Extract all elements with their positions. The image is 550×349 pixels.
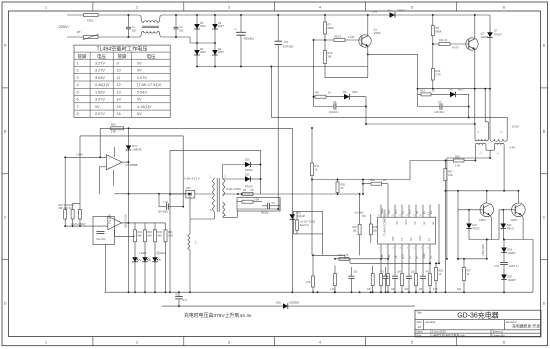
svg-text:+(0.46)V: +(0.46)V — [354, 211, 364, 214]
svg-text:D26: D26 — [276, 300, 281, 304]
svg-text:471: 471 — [183, 299, 188, 302]
svg-text:0R: 0R — [251, 189, 254, 192]
svg-text:(39~009): (39~009) — [158, 210, 168, 213]
svg-text:15: 15 — [117, 105, 121, 109]
svg-text:4: 4 — [319, 341, 321, 345]
svg-text:4.67V: 4.67V — [452, 46, 459, 50]
svg-text:D17: D17 — [132, 144, 137, 148]
svg-text:12K: 12K — [419, 289, 424, 291]
svg-text:2: 2 — [136, 5, 138, 9]
svg-text:OUT: OUT — [389, 209, 391, 214]
svg-text:FB: FB — [417, 211, 419, 214]
svg-text:GND: GND — [424, 253, 426, 258]
svg-text:13003: 13003 — [481, 35, 489, 39]
svg-text:6: 6 — [77, 98, 79, 102]
svg-text:电压: 电压 — [97, 53, 106, 60]
svg-text:1: 1 — [45, 5, 47, 9]
svg-text:0.46(1)V: 0.46(1)V — [95, 83, 110, 87]
svg-text:FR107: FR107 — [245, 168, 253, 172]
svg-text:0V: 0V — [137, 69, 142, 73]
svg-text:C: C — [4, 215, 7, 219]
svg-text:NC: NC — [396, 221, 399, 225]
svg-text:4007: 4007 — [218, 50, 224, 54]
svg-text:206: 206 — [179, 30, 184, 33]
svg-text:D: D — [543, 301, 546, 305]
svg-text:10K: 10K — [373, 229, 378, 232]
svg-text:D6: D6 — [343, 90, 347, 94]
svg-text:E:\我的文档\新建文件夹.ddb: E:\我的文档\新建文件夹.ddb — [430, 333, 465, 337]
svg-text:R15: R15 — [315, 165, 320, 168]
svg-text:FR107: FR107 — [398, 9, 406, 13]
svg-text:1GB: 1GB — [168, 235, 173, 238]
svg-text:充电器研发-开发: 充电器研发-开发 — [512, 324, 540, 329]
svg-text:Q2: Q2 — [481, 32, 485, 36]
svg-text:1IN+: 1IN+ — [382, 253, 384, 259]
svg-text:680K: 680K — [436, 30, 442, 34]
svg-text:1N4007: 1N4007 — [508, 279, 517, 282]
svg-text:20v/4.7u: 20v/4.7u — [300, 224, 310, 227]
svg-text:10K: 10K — [457, 289, 462, 291]
svg-text:0.5R: 0.5R — [254, 199, 259, 202]
svg-text:3.27V: 3.27V — [95, 69, 105, 73]
svg-text:VCC: VCC — [396, 209, 398, 214]
svg-text:EGP10D: EGP10D — [283, 45, 293, 49]
svg-text:13001: 13001 — [374, 31, 382, 35]
svg-text:DTC: DTC — [410, 209, 412, 214]
svg-text:4.16(1)V: 4.16(1)V — [137, 105, 152, 109]
svg-text:3.07V: 3.07V — [95, 98, 105, 102]
svg-text:管脚: 管脚 — [118, 53, 127, 60]
svg-text:2: 2 — [77, 69, 79, 73]
svg-text:3.27V: 3.27V — [95, 61, 105, 65]
svg-text:E6200B: E6200B — [290, 300, 300, 304]
svg-text:5: 5 — [411, 5, 413, 9]
svg-text:1.68V: 1.68V — [76, 153, 83, 157]
svg-text:7.04: 7.04 — [163, 201, 168, 204]
svg-text:R17 4.7K: R17 4.7K — [338, 254, 349, 257]
svg-text:FB: FB — [396, 255, 398, 258]
svg-text:C7: C7 — [438, 100, 442, 104]
svg-text:Title: Title — [417, 311, 423, 315]
svg-text:R13: R13 — [420, 88, 425, 92]
svg-text:6: 6 — [503, 341, 505, 345]
svg-text:VREF: VREF — [382, 207, 384, 214]
svg-text:1.2K: 1.2K — [330, 289, 335, 291]
svg-text:12: 12 — [117, 83, 121, 87]
svg-text:7: 7 — [77, 105, 79, 109]
svg-text:GD-36充电器: GD-36充电器 — [457, 311, 499, 320]
svg-text:F501: F501 — [87, 19, 94, 23]
svg-text:648: 648 — [148, 235, 153, 238]
svg-text:5(0.4~2.1)V: 5(0.4~2.1)V — [125, 214, 128, 227]
svg-text:1M: 1M — [328, 55, 332, 59]
svg-text:充电时电压由375V上升到44.4v: 充电时电压由375V上升到44.4v — [184, 312, 252, 319]
svg-text:1: 1 — [77, 61, 79, 65]
svg-text:3.4K: 3.4K — [448, 174, 453, 177]
svg-text:Q1: Q1 — [374, 28, 378, 32]
svg-text:1K: 1K — [383, 179, 386, 182]
svg-text:6.8V: 6.8V — [372, 10, 378, 14]
svg-text:1K: 1K — [341, 187, 344, 190]
svg-text:0V: 0V — [137, 61, 142, 65]
svg-text:File:: File: — [417, 333, 423, 337]
svg-text:D: D — [4, 301, 7, 305]
svg-text:VCC: VCC — [405, 219, 408, 224]
svg-text:RT: RT — [410, 237, 413, 241]
svg-text:管脚: 管脚 — [78, 53, 87, 60]
svg-text:5: 5 — [77, 90, 79, 94]
svg-text:2.1~2.4V: 2.1~2.4V — [109, 214, 112, 224]
svg-text:3.93V: 3.93V — [95, 76, 105, 80]
svg-text:U02: U02 — [186, 187, 191, 190]
svg-text:-: - — [108, 166, 109, 170]
svg-text:R9: R9 — [436, 26, 440, 30]
svg-text:2.07V: 2.07V — [95, 112, 105, 116]
svg-text:Drawn By:: Drawn By: — [493, 333, 506, 337]
svg-text:D25: D25 — [508, 276, 513, 279]
svg-text:(0.46~3.08)V: (0.46~3.08)V — [226, 187, 241, 191]
svg-text:648: 648 — [158, 235, 163, 238]
svg-text:-: - — [110, 226, 111, 230]
svg-text:D23: D23 — [507, 224, 512, 227]
svg-text:电压: 电压 — [147, 53, 156, 60]
svg-text:2n4/1Kv: 2n4/1Kv — [329, 110, 339, 114]
svg-text:L: L — [195, 241, 197, 245]
svg-text:4007: 4007 — [200, 24, 206, 28]
svg-text:D7: D7 — [494, 29, 498, 33]
svg-text:FR107: FR107 — [245, 185, 253, 189]
svg-text:GND: GND — [419, 235, 422, 241]
svg-text:1N4148: 1N4148 — [132, 148, 142, 152]
svg-text:1R: 1R — [243, 189, 246, 192]
svg-text:4007: 4007 — [200, 50, 206, 54]
svg-text:1K: 1K — [315, 169, 318, 172]
svg-text:4007: 4007 — [218, 24, 224, 28]
svg-text:C13: C13 — [495, 265, 500, 268]
svg-text:14.0V: 14.0V — [512, 125, 519, 129]
svg-text:5W10p: 5W10p — [261, 212, 269, 215]
svg-text:D11: D11 — [245, 172, 250, 176]
svg-text:3: 3 — [228, 341, 230, 345]
svg-text:5.1K: 5.1K — [433, 289, 438, 291]
svg-text:4007: 4007 — [458, 88, 464, 92]
svg-text:0V: 0V — [137, 98, 142, 102]
svg-text:D4: D4 — [285, 40, 289, 44]
svg-text:R10: R10 — [328, 51, 333, 55]
svg-text:Revision: Revision — [506, 320, 517, 324]
svg-text:R6: R6 — [316, 91, 320, 95]
svg-text:1N4007: 1N4007 — [508, 252, 517, 255]
svg-text:R11 22: R11 22 — [439, 38, 448, 42]
svg-text:DTC: DTC — [403, 253, 405, 258]
svg-text:1.52V: 1.52V — [95, 90, 105, 94]
svg-text:+: + — [108, 156, 110, 160]
svg-text:1.36(2.36)V: 1.36(2.36)V — [482, 244, 485, 257]
svg-text:1.4K: 1.4K — [455, 165, 460, 168]
svg-text:C12 104: C12 104 — [96, 238, 106, 241]
svg-text:7D: 7D — [175, 293, 178, 296]
svg-text:13007: 13007 — [511, 219, 519, 222]
svg-text:4: 4 — [319, 5, 321, 9]
svg-text:2: 2 — [136, 341, 138, 345]
svg-text:1: 1 — [45, 341, 47, 345]
svg-text:648: 648 — [138, 235, 143, 238]
svg-text:3: 3 — [77, 76, 79, 80]
svg-text:9: 9 — [117, 61, 119, 65]
svg-text:13007: 13007 — [479, 219, 487, 222]
svg-text:450v/82u: 450v/82u — [244, 37, 255, 41]
svg-text:4: 4 — [77, 83, 79, 87]
svg-text:R36: R36 — [455, 156, 460, 159]
svg-text:8: 8 — [77, 112, 79, 116]
svg-text:A4: A4 — [418, 325, 422, 329]
svg-text:680K: 680K — [328, 26, 334, 30]
svg-text:DTC: DTC — [392, 236, 395, 241]
svg-text:LED4: LED4 — [140, 251, 147, 255]
svg-text:6: 6 — [503, 5, 505, 9]
svg-text:D24: D24 — [508, 249, 513, 252]
svg-text:RT: RT — [77, 30, 81, 34]
svg-text:1.8K: 1.8K — [111, 130, 117, 134]
svg-text:(7.58~17.94)V: (7.58~17.94)V — [137, 83, 162, 87]
svg-text:16: 16 — [117, 112, 121, 116]
svg-text:R16: R16 — [370, 179, 375, 182]
svg-text:1IN-: 1IN- — [389, 254, 391, 259]
svg-text:D21: D21 — [473, 224, 478, 227]
svg-text:10K: 10K — [391, 289, 396, 291]
svg-text:+: + — [235, 28, 237, 32]
svg-text:FR107: FR107 — [473, 228, 481, 231]
svg-text:10: 10 — [117, 69, 121, 73]
svg-text:1.2K: 1.2K — [306, 281, 311, 284]
svg-text:0.18(~0.66)V: 0.18(~0.66)V — [71, 223, 86, 226]
svg-text:D9: D9 — [387, 9, 391, 13]
svg-text:IN-: IN- — [424, 211, 426, 214]
svg-text:R7: R7 — [328, 23, 332, 27]
svg-text:4.4V: 4.4V — [510, 145, 516, 149]
svg-text:FR107: FR107 — [494, 33, 502, 37]
svg-text:220V~: 220V~ — [59, 24, 71, 29]
svg-text:0.46~4.13 V: 0.46~4.13 V — [185, 176, 200, 180]
svg-text:1.03V: 1.03V — [348, 35, 355, 39]
svg-text:C6: C6 — [333, 100, 337, 104]
svg-text:TL494空载时工作电压: TL494空载时工作电压 — [96, 45, 147, 53]
svg-text:CT: CT — [401, 237, 404, 241]
svg-text:红LED4: 红LED4 — [157, 251, 167, 255]
svg-text:2.7K: 2.7K — [436, 73, 442, 77]
svg-text:1N4148: 1N4148 — [297, 215, 306, 218]
svg-text:Size: Size — [417, 320, 423, 324]
svg-text:R14: R14 — [436, 69, 441, 73]
svg-text:13: 13 — [117, 90, 121, 94]
svg-text:14: 14 — [117, 98, 121, 102]
svg-text:2A4/4.7u: 2A4/4.7u — [509, 265, 519, 268]
svg-text:5: 5 — [411, 341, 413, 345]
svg-text:3: 3 — [228, 5, 230, 9]
svg-text:10K: 10K — [367, 289, 372, 291]
svg-text:0V: 0V — [95, 105, 100, 109]
svg-text:D8: D8 — [449, 88, 453, 92]
svg-text:5.04V: 5.04V — [137, 90, 147, 94]
svg-text:Number: Number — [426, 320, 436, 324]
svg-text:11: 11 — [117, 76, 121, 80]
svg-text:R24: R24 — [111, 123, 116, 127]
svg-text:4007: 4007 — [352, 90, 358, 94]
svg-text:FR107: FR107 — [507, 228, 515, 231]
svg-text:R8 15: R8 15 — [334, 35, 341, 39]
svg-text:D10: D10 — [245, 158, 250, 162]
svg-text:C: C — [543, 215, 546, 219]
svg-text:2.2n/1Kv: 2.2n/1Kv — [434, 110, 445, 114]
svg-text:U3-358BB: U3-358BB — [126, 163, 138, 167]
svg-text:206: 206 — [132, 30, 137, 33]
svg-text:0V: 0V — [137, 112, 142, 116]
svg-text:2.07V: 2.07V — [137, 76, 147, 80]
